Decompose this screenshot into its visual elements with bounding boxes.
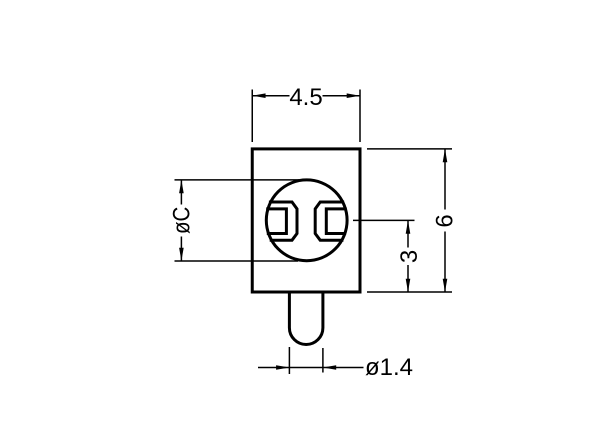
left slot outer boundary (chords, bevel diagonals, slot edge)	[270, 202, 297, 240]
arrow oC top	[179, 180, 184, 193]
arrow oC bottom	[179, 248, 184, 261]
svg-text:4.5: 4.5	[289, 84, 322, 111]
pin (bottom lead with rounded tip)	[289, 292, 323, 345]
dim oC line	[180, 180, 182, 261]
dim 6 extension lines	[367, 149, 452, 292]
dim 3 line	[407, 220, 409, 292]
right slot outer boundary (chords, bevel diagonals, slot edge)	[315, 202, 342, 240]
left slot inner face	[268, 209, 287, 234]
arrow 3 bottom	[406, 279, 411, 292]
dim 6 line	[444, 149, 446, 292]
arrow 1.4 left (tip at left ext line, points right)	[276, 365, 289, 370]
svg-text:3: 3	[396, 250, 423, 263]
arrow 6 bottom	[443, 279, 448, 292]
dim 1.4 line	[258, 367, 364, 369]
body rectangle	[252, 149, 360, 292]
dim oC extension lines	[175, 180, 300, 261]
svg-text:øC: øC	[168, 207, 195, 234]
dim 3 extension line	[353, 219, 415, 221]
dim 4.5 line	[252, 95, 360, 97]
arrow 1.4 right (tip at right ext line, points left)	[323, 365, 336, 370]
svg-text:6: 6	[432, 214, 459, 227]
arrow 4.5 right	[347, 93, 360, 98]
rotor circle	[266, 180, 347, 261]
right slot inner face	[326, 209, 345, 234]
dim 1.4 extension lines	[289, 347, 323, 374]
svg-text:ø1.4: ø1.4	[365, 354, 413, 381]
arrow 4.5 left	[252, 93, 265, 98]
arrow 3 top	[406, 220, 411, 233]
dim 4.5 extension lines	[252, 90, 360, 143]
arrow 6 top	[443, 149, 448, 162]
